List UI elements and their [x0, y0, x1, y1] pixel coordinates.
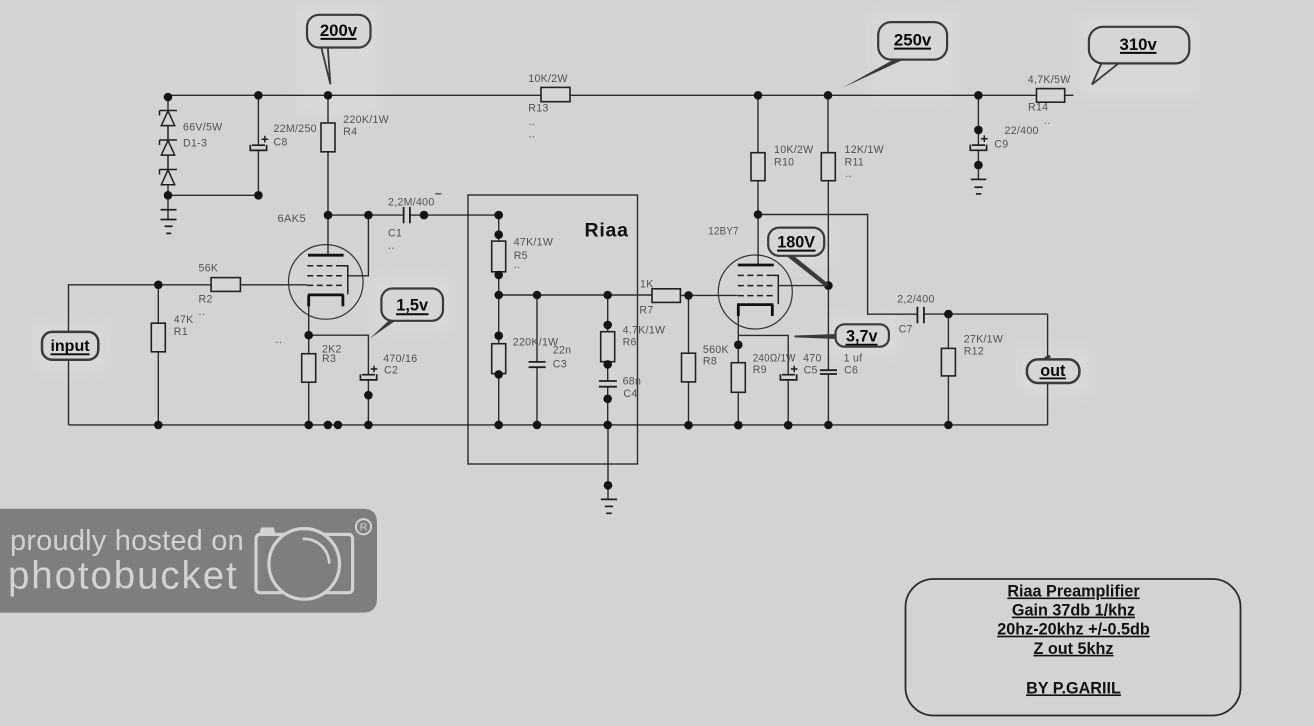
- wire R7 to grid: [680, 294, 737, 296]
- svg-text:10K/2W: 10K/2W: [774, 144, 813, 156]
- svg-text:66V/5W: 66V/5W: [183, 122, 222, 134]
- resistor R8 560K: [682, 353, 696, 382]
- wire 12BY7 screen tap: [778, 285, 828, 287]
- junction dots ground bus: [154, 421, 953, 430]
- artifact dash near riaa box: [435, 193, 441, 195]
- wire 6AK5 screen riser: [348, 215, 369, 276]
- value label D1-3: [183, 122, 222, 150]
- camera icon: [256, 527, 353, 599]
- wire C8 top: [257, 95, 259, 144]
- wire top B+ rail: [168, 94, 1074, 96]
- svg-text:2,2/400: 2,2/400: [897, 294, 934, 306]
- wire diode top: [167, 95, 169, 110]
- svg-text:4,7K/5W: 4,7K/5W: [1028, 74, 1071, 86]
- wire R9 bottom: [737, 392, 739, 425]
- svg-text:Gain 37db 1/khz: Gain 37db 1/khz: [1012, 602, 1135, 620]
- resistor 220K/1W riaa: [492, 344, 506, 374]
- svg-text:photobucket: photobucket: [8, 555, 237, 598]
- svg-text:C4: C4: [623, 388, 637, 400]
- svg-text:..: ..: [276, 334, 283, 346]
- value label R8: [703, 344, 729, 368]
- resistor R9 240ohm/1W: [731, 363, 745, 393]
- wire out drop lower: [1047, 383, 1049, 425]
- svg-text:C9: C9: [994, 139, 1008, 151]
- svg-text:3,7v: 3,7v: [846, 328, 878, 346]
- resistor R11 12K/1W: [821, 153, 835, 181]
- svg-text:C5: C5: [804, 365, 818, 377]
- svg-text:22n: 22n: [553, 345, 572, 357]
- svg-text:input: input: [50, 338, 90, 355]
- svg-text:..: ..: [1044, 115, 1051, 127]
- svg-text:20hz-20khz +/-0.5db: 20hz-20khz +/-0.5db: [997, 621, 1150, 639]
- svg-text:Z out 5khz: Z out 5khz: [1033, 640, 1113, 658]
- capacitor C3 22n: [529, 362, 546, 367]
- wire plate node to C7: [758, 215, 917, 315]
- registered mark: [356, 519, 371, 534]
- wire C3 branch: [536, 295, 538, 361]
- svg-text:C6: C6: [844, 365, 858, 377]
- svg-text:R9: R9: [753, 364, 767, 376]
- svg-text:1K: 1K: [640, 278, 654, 290]
- svg-text:Riaa: Riaa: [585, 219, 629, 241]
- wire out drop upper: [1047, 314, 1049, 359]
- balloon 1,5v: [370, 289, 443, 339]
- capacitor C7 2,2/400: [917, 307, 924, 324]
- wire R2 to 6AK5 grid: [240, 284, 307, 286]
- value label 220K riaa: [513, 336, 559, 348]
- svg-text:..: ..: [529, 116, 536, 128]
- balloon 250v: [843, 22, 948, 88]
- svg-text:22/400: 22/400: [1005, 125, 1039, 137]
- capacitor C8 22M/250 electrolytic: [250, 136, 268, 151]
- svg-text:250v: 250v: [894, 30, 932, 49]
- svg-text:220K/1W: 220K/1W: [343, 114, 389, 126]
- wire ground bus: [69, 424, 1048, 426]
- value label R14: [1028, 74, 1071, 114]
- wire riaa ground drop: [607, 425, 609, 500]
- capacitor C2 470/16 electrolytic: [360, 366, 377, 380]
- wire riaa junction row: [499, 294, 652, 296]
- wire C5 bottom: [787, 381, 789, 426]
- wire C8 bottom: [257, 151, 259, 195]
- value label C4: [623, 375, 642, 400]
- svg-text:10K/2W: 10K/2W: [528, 73, 567, 85]
- svg-text:..: ..: [199, 306, 206, 318]
- wire R5 chain: [498, 215, 500, 241]
- wire C6 bottom: [827, 374, 829, 425]
- value label C9: [994, 115, 1050, 151]
- svg-text:C8: C8: [274, 136, 288, 148]
- svg-text:D1-3: D1-3: [183, 138, 207, 150]
- value label R1: [174, 306, 205, 338]
- svg-text:56K: 56K: [199, 263, 219, 275]
- resistor R5 47K/1W: [492, 241, 506, 272]
- wire R6 branch: [607, 295, 609, 332]
- svg-text:12K/1W: 12K/1W: [845, 144, 884, 156]
- svg-text:470: 470: [803, 352, 822, 364]
- balloon 180V: [768, 228, 828, 287]
- wire 12BY7 plate lead: [757, 215, 759, 265]
- photobucket watermark band: [0, 509, 377, 613]
- balloon out: [1027, 355, 1080, 383]
- wire input left drop: [69, 285, 212, 425]
- svg-text:220K/1W: 220K/1W: [513, 336, 559, 348]
- balloon 310v: [1089, 27, 1189, 85]
- wire R4 top: [327, 95, 329, 123]
- wire R11 top: [827, 95, 829, 152]
- resistor R14 4,7K/5W: [1037, 89, 1065, 103]
- value label R9: [753, 352, 796, 376]
- svg-text:R14: R14: [1028, 102, 1048, 114]
- value label C3: [553, 345, 572, 371]
- capacitor C5 470 electrolytic: [780, 366, 797, 380]
- wire C2 bottom: [367, 380, 369, 425]
- svg-text:R12: R12: [964, 346, 984, 358]
- svg-text:R11: R11: [845, 156, 865, 168]
- svg-text:..: ..: [529, 129, 536, 141]
- svg-text:proudly hosted on: proudly hosted on: [10, 525, 244, 557]
- value label C7: [897, 294, 934, 336]
- balloon input: [42, 332, 98, 360]
- resistor R3 2K2: [302, 354, 316, 383]
- svg-text:out: out: [1040, 362, 1066, 380]
- svg-text:..: ..: [845, 168, 852, 180]
- balloon 200v: [307, 15, 371, 85]
- tube 6AK5 U1: [289, 245, 364, 320]
- wire cathode to C2: [309, 335, 369, 374]
- svg-text:1,5v: 1,5v: [396, 297, 429, 315]
- junction dots top rail: [164, 91, 983, 101]
- svg-text:..: ..: [388, 240, 395, 252]
- svg-text:R2: R2: [199, 294, 213, 306]
- value label R4: [343, 114, 389, 138]
- wire 12BY7 cathode lead: [737, 316, 739, 363]
- svg-text:C3: C3: [553, 358, 567, 370]
- value label R10: [774, 144, 813, 168]
- Riaa network box: [468, 195, 638, 464]
- svg-text:C7: C7: [899, 323, 913, 335]
- svg-text:C1: C1: [388, 227, 402, 239]
- ground symbol below Riaa box: [601, 499, 617, 513]
- value label C8: [274, 123, 317, 149]
- svg-text:BY P.GARIIL: BY P.GARIIL: [1026, 679, 1121, 697]
- value label C5: [803, 352, 822, 376]
- value label R6: [623, 324, 666, 348]
- resistor R4 220K/1W: [321, 123, 335, 152]
- wire 6AK5 plate lead: [327, 215, 329, 255]
- svg-text:200v: 200v: [320, 21, 358, 40]
- svg-text:27K/1W: 27K/1W: [964, 333, 1003, 345]
- wire R10 top: [757, 95, 759, 152]
- wire C4 bottom: [607, 387, 609, 425]
- svg-text:6AK5: 6AK5: [278, 213, 307, 225]
- value label C1: [388, 197, 435, 253]
- svg-text:560K: 560K: [703, 344, 729, 356]
- wire 6AK5 cathode node: [308, 306, 310, 354]
- wire R11 to 180V node: [827, 181, 829, 286]
- svg-text:68n: 68n: [623, 375, 642, 387]
- wire R4 to plate node: [327, 152, 329, 215]
- svg-text:R: R: [360, 522, 368, 534]
- svg-text:47K: 47K: [174, 314, 194, 326]
- balloon glow halos: [32, 5, 1200, 393]
- wire diode node to C8: [168, 194, 258, 196]
- svg-text:180V: 180V: [777, 233, 815, 251]
- svg-text:R1: R1: [174, 326, 188, 338]
- svg-text:47K/1W: 47K/1W: [514, 237, 553, 249]
- svg-text:1 uf: 1 uf: [844, 352, 863, 364]
- value label R7: [639, 278, 653, 316]
- ground symbol below diodes: [161, 210, 177, 234]
- wire cathode to C5: [738, 335, 788, 374]
- wire C9 branch: [977, 95, 979, 144]
- wire R12 branch: [947, 314, 949, 348]
- value label R11: [845, 144, 884, 180]
- svg-text:22M/250: 22M/250: [274, 123, 317, 135]
- svg-text:R4: R4: [343, 126, 357, 138]
- value label R2: [199, 263, 219, 306]
- capacitor C4 68n: [599, 381, 617, 387]
- svg-text:12BY7: 12BY7: [708, 225, 739, 237]
- diode D2 66V/5W: [160, 140, 178, 170]
- junction dots misc nodes: [154, 126, 983, 490]
- wire 180V node to C6: [827, 286, 829, 370]
- resistor R1 47K: [151, 323, 165, 352]
- svg-text:R10: R10: [774, 156, 794, 168]
- ground symbol below C9: [971, 179, 987, 194]
- svg-text:470/16: 470/16: [383, 353, 417, 365]
- value label R5: [514, 237, 553, 272]
- svg-text:R13: R13: [528, 102, 548, 114]
- diode D3 66V/5W: [160, 170, 178, 185]
- value label C6: [844, 352, 863, 376]
- wire diode bottom to ground: [167, 185, 169, 220]
- wire R1 branch: [157, 285, 159, 323]
- wire R3 bottom: [308, 382, 310, 425]
- capacitor C9 22/400 electrolytic: [970, 135, 987, 150]
- diode D1 66V/5W: [160, 111, 178, 141]
- capacitor C6 1uf: [820, 370, 837, 374]
- svg-text:Riaa Preamplifier: Riaa Preamplifier: [1007, 583, 1140, 601]
- value label R13: [528, 73, 567, 141]
- value label R3: [276, 334, 342, 365]
- resistor R12 27K/1W: [941, 348, 955, 376]
- svg-text:R3: R3: [322, 353, 336, 365]
- svg-text:310v: 310v: [1120, 35, 1158, 54]
- wire R8 branch: [688, 295, 690, 353]
- resistor R13 10K/2W: [541, 87, 570, 101]
- wire C1 to Riaa box: [410, 214, 498, 216]
- svg-text:..: ..: [514, 259, 521, 271]
- wire plate node to C1: [328, 214, 403, 216]
- wire R10 to plate node: [757, 181, 759, 215]
- resistor R10 10K/2W: [751, 153, 765, 181]
- resistor R6 4.7K/1W: [601, 332, 615, 362]
- svg-text:240Ω/1W: 240Ω/1W: [753, 352, 796, 364]
- svg-text:R6: R6: [623, 336, 637, 348]
- info box Riaa Preamplifier: [906, 579, 1241, 716]
- tube 12BY7 U2: [718, 255, 792, 329]
- svg-text:2,2M/400: 2,2M/400: [388, 197, 435, 209]
- value label C2: [383, 353, 417, 377]
- resistor R7 1K: [652, 289, 680, 303]
- svg-text:R7: R7: [639, 305, 653, 317]
- svg-text:4.7K/1W: 4.7K/1W: [623, 324, 666, 336]
- svg-text:R8: R8: [703, 356, 717, 368]
- value label R12: [964, 333, 1003, 357]
- wire C7 to out corner: [924, 313, 1047, 315]
- svg-text:C2: C2: [384, 365, 398, 377]
- capacitor C1 2,2M/400: [404, 207, 410, 223]
- balloon 3,7v: [795, 324, 889, 346]
- resistor R2 56K: [211, 278, 240, 292]
